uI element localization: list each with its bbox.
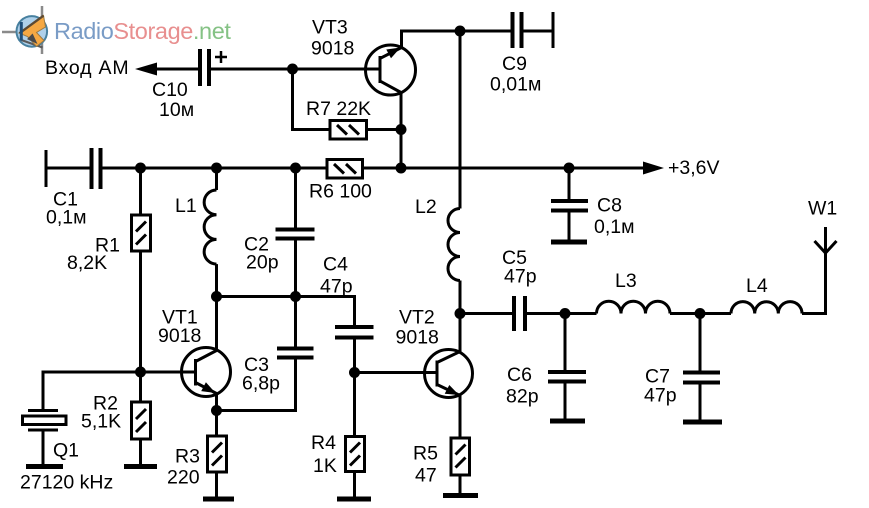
resistor R1 [139, 168, 142, 215]
svg-text:R3: R3 [175, 446, 200, 468]
wire R3 to ground [215, 472, 218, 497]
svg-text:82p: 82p [506, 386, 539, 408]
wire terminal to C1 [46, 167, 90, 170]
capacitor C6 [564, 314, 567, 371]
wire Q1 to ground [42, 432, 45, 465]
svg-text:RadioStorage.net: RadioStorage.net [54, 18, 231, 44]
svg-text:47: 47 [415, 465, 437, 487]
ground Q1 [26, 464, 63, 469]
capacitor C3 [277, 347, 314, 351]
resistor R5 [451, 438, 470, 475]
wire top node to C9 [460, 30, 511, 33]
node VT2 collector / C5 [455, 308, 466, 319]
wire R7 right to node B [367, 128, 402, 131]
capacitor C7 [699, 314, 702, 371]
inductor L3 [597, 301, 671, 313]
resistor R3 [215, 411, 218, 437]
svg-text:9018: 9018 [311, 38, 354, 60]
capacitor C5 [512, 296, 516, 331]
capacitor C4 [335, 325, 374, 329]
wire arrow to C10 [153, 68, 198, 71]
ground C7 [683, 420, 722, 425]
ground C8 [551, 240, 587, 245]
inductor L2 [448, 209, 460, 281]
wire VT2 collector up [459, 314, 462, 352]
wire VT2 emitter down to R5 [459, 396, 462, 439]
svg-text:8,2K: 8,2K [67, 252, 107, 274]
inductor L4 [731, 302, 802, 314]
wire node D to L3 [565, 312, 597, 315]
node B (R7 right / VT3 collector) [396, 124, 407, 135]
svg-text:+3,6V: +3,6V [668, 157, 720, 179]
resistor R7 [330, 121, 367, 140]
transistor VT3 [366, 45, 416, 95]
svg-text:R7 22K: R7 22K [306, 98, 371, 120]
svg-text:0,1м: 0,1м [594, 216, 635, 238]
terminal bar C9 output [552, 12, 555, 48]
ground R2 [124, 464, 157, 469]
wire emitter node to C3 bottom [217, 359, 296, 411]
svg-text:9018: 9018 [396, 327, 439, 349]
svg-text:С10: С10 [152, 79, 188, 101]
wire mid horizontal to C4 corner [217, 297, 355, 326]
svg-text:47p: 47p [644, 385, 677, 407]
svg-text:0,01м: 0,01м [490, 74, 541, 96]
resistor R4 [353, 373, 356, 437]
antenna W1 [815, 241, 837, 253]
wire Q1 branch [43, 372, 141, 409]
wire R6 to node C [363, 167, 402, 170]
capacitor C10 [198, 49, 202, 86]
logo RadioStorage.net [2, 6, 231, 54]
node L1/VT1 collector [211, 291, 222, 302]
svg-text:L1: L1 [175, 195, 197, 217]
node rail C2 [290, 163, 301, 174]
wire top node down to L2 (crosses +3,6V rail) [459, 31, 462, 209]
resistor R6 [327, 160, 363, 179]
wire node to VT2 base [355, 371, 438, 374]
svg-text:0,1м: 0,1м [46, 207, 87, 229]
svg-text:20p: 20p [246, 252, 279, 274]
svg-text:5,1K: 5,1K [81, 411, 121, 433]
terminal bar C1 left [45, 150, 48, 187]
node C2 bottom [290, 291, 301, 302]
svg-text:47p: 47p [504, 266, 537, 288]
transistor VT1 [182, 348, 231, 397]
svg-text:С8: С8 [597, 195, 622, 217]
ground R4 [337, 497, 371, 502]
svg-text:220: 220 [167, 467, 200, 489]
svg-text:10м: 10м [159, 99, 194, 121]
svg-text:L3: L3 [615, 270, 637, 292]
wire C10 to node A [211, 68, 293, 71]
wire node A down to R7 left [293, 69, 331, 130]
svg-text:9018: 9018 [158, 325, 201, 347]
svg-text:27120 kHz: 27120 kHz [20, 472, 113, 494]
svg-text:Вход АМ: Вход АМ [45, 57, 129, 79]
svg-text:VT3: VT3 [312, 17, 348, 39]
crystal Q1 [23, 411, 67, 431]
node VT1 base [135, 367, 146, 378]
svg-text:L4: L4 [746, 275, 768, 297]
wire R5 to ground [459, 475, 462, 493]
ground R3 [203, 497, 234, 502]
node D (C5/C6/L3) [560, 308, 571, 319]
wire VT1 collector up [215, 297, 218, 351]
wire rail to arrow [401, 167, 655, 170]
node E (L3/L4/C7) [695, 308, 706, 319]
node A (VT3 base / R7 left / C10) [287, 64, 298, 75]
svg-text:R5: R5 [413, 443, 438, 465]
node rail L1 [211, 163, 222, 174]
wire R2 to ground [139, 439, 142, 464]
wire node A to VT3 base [293, 68, 381, 71]
svg-text:С4: С4 [323, 254, 348, 276]
wire L4 to antenna [802, 227, 826, 314]
svg-text:R4: R4 [311, 432, 336, 454]
node top (VT3/C9/L2) [455, 26, 466, 37]
capacitor C1 [90, 148, 94, 189]
svg-text:W1: W1 [808, 198, 837, 220]
node rail C8 [564, 163, 575, 174]
capacitor C9 [511, 12, 515, 48]
node VT1 emitter [211, 405, 222, 416]
arrow +3,6V [643, 162, 664, 175]
transistor VT2 [425, 350, 473, 398]
capacitor C8 [568, 168, 571, 199]
wire C1 to rail [103, 167, 296, 170]
svg-text:1K: 1K [313, 455, 337, 477]
wire L3 to node E [670, 312, 700, 315]
svg-text:47p: 47p [320, 276, 353, 298]
svg-text:С9: С9 [502, 53, 527, 75]
wire VT2 collector node to C5 [460, 312, 512, 315]
wire VT3 emitter to top node [402, 31, 461, 48]
node rail R1 [135, 163, 146, 174]
wire R4 to ground [353, 472, 356, 497]
wire node E to L4 [700, 312, 731, 315]
wire C5 to node D [527, 312, 565, 315]
wire VT1 emitter down [215, 394, 218, 411]
svg-text:VT2: VT2 [399, 307, 435, 329]
wire C9 to output terminal [524, 30, 554, 33]
svg-text:Q1: Q1 [53, 440, 79, 462]
svg-text:R6 100: R6 100 [309, 181, 372, 203]
svg-text:6,8p: 6,8p [242, 373, 280, 395]
wire R1 to VT1 base node [139, 251, 142, 372]
ground C6 [550, 419, 585, 424]
wire rail to R6 [296, 167, 328, 170]
svg-text:L2: L2 [415, 196, 437, 218]
resistor R2 [139, 372, 142, 402]
capacitor C2 [294, 168, 297, 228]
arrow AM input (left) [135, 63, 157, 76]
node C (rail / VT3 column) [396, 163, 407, 174]
svg-text:С6: С6 [507, 364, 532, 386]
inductor L1 [215, 168, 218, 190]
node C4/R4/VT2 base [349, 367, 360, 378]
ground R5 [443, 493, 478, 498]
wire VT3 collector down to rail [400, 93, 403, 169]
wire base node to VT1 [141, 371, 196, 374]
